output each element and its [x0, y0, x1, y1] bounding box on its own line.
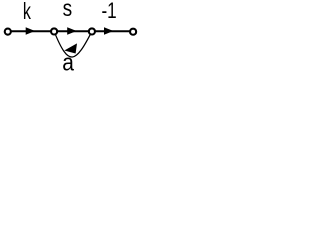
node N2 [51, 28, 57, 34]
arrowhead: branch k mid-arrow [26, 27, 35, 34]
arrowhead: branch s mid-arrow [67, 27, 76, 34]
svg-text:-1: -1 [101, 0, 116, 23]
svg-text:k: k [23, 0, 31, 25]
node N4 (output) [130, 29, 136, 35]
node N3 [89, 28, 95, 34]
arrowhead: branch -1 mid-arrow [104, 27, 113, 34]
wire: main horizontal branch line node1-to-node4 [8, 30, 133, 32]
label: gain -1 [101, 0, 116, 23]
label: gain k [23, 0, 31, 25]
node N1 (input) [5, 29, 11, 35]
svg-text:s: s [63, 0, 73, 21]
wire: feedback branch arc a from node N3 back to node N2 [54, 31, 92, 57]
label: gain s [63, 0, 73, 21]
arrowhead: feedback branch a arrow (points left) [64, 43, 77, 53]
label: feedback gain a [62, 49, 74, 76]
svg-text:a: a [62, 49, 74, 73]
